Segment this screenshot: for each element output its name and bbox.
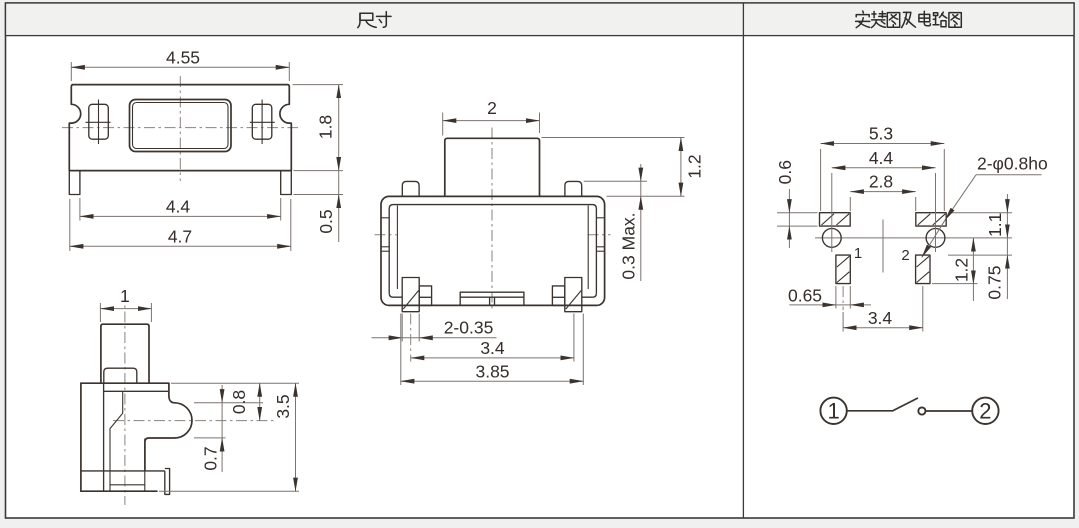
mount left pad hatch [822, 214, 835, 225]
mount vertical center tick [882, 220, 884, 273]
front view left terminal [402, 278, 419, 312]
top view left peg cross line [86, 121, 111, 123]
svg-text:1: 1 [854, 245, 862, 262]
dim 3.4 line [843, 327, 923, 329]
dim 0.3Max lower arrow tail [640, 196, 642, 281]
dim 0.6 lower arrow [788, 226, 790, 248]
dim 1.1 lower arrow [1006, 220, 1008, 238]
svg-text:4.55: 4.55 [166, 48, 200, 68]
dim 4.7 extension lines [69, 199, 71, 251]
mount left pad [820, 213, 851, 226]
dim 0.65 left segment [789, 304, 836, 306]
dim 2-0.35 left segment [372, 337, 403, 339]
dim 4.4 line [80, 215, 281, 217]
side view bump bottom extension line [194, 437, 226, 439]
dim 0.65 middle segment [836, 304, 850, 306]
front view right terminal hatch [566, 291, 581, 310]
dim 1.1 connector [1006, 213, 1008, 220]
front view right peg [565, 181, 582, 196]
mount right terminal hatch [917, 256, 930, 267]
svg-text:2: 2 [901, 247, 909, 264]
front view left wall ticks [381, 217, 389, 219]
dim 0.7 connector [221, 403, 223, 438]
dim 3.4 right extension [573, 314, 575, 362]
front view left terminal step [419, 286, 431, 306]
dim 3.4 extension lines [842, 312, 844, 332]
front view body outer [381, 196, 605, 305]
front view button [445, 138, 540, 196]
dim 0.6 connector [788, 213, 790, 226]
side view centerline horizontal [113, 420, 277, 422]
left terminal center dashed line [410, 314, 412, 362]
side view left column inner [103, 383, 105, 491]
column divider [742, 3, 744, 518]
glyph 装 [872, 13, 876, 15]
leader segment to pad [945, 175, 976, 221]
svg-text:2: 2 [979, 399, 991, 424]
side view interior right vertical [144, 438, 146, 491]
dim 0.3Max extension line [584, 180, 647, 182]
mount left terminal hatch [837, 256, 850, 267]
dim 2 extension lines [442, 113, 444, 136]
dim 5.3 line [821, 143, 945, 145]
dim 1.1 upper arrow [1006, 194, 1008, 213]
dim 1.2 tail [972, 284, 974, 301]
svg-text:1: 1 [120, 286, 130, 306]
svg-text:3.5: 3.5 [273, 394, 293, 418]
side view bottom edge [81, 490, 157, 492]
dim 0.3Max upper arrow [640, 164, 642, 181]
side view body top line [81, 382, 169, 384]
top view button outer [130, 100, 232, 152]
glyph 及 [903, 11, 910, 13]
svg-text:4.4: 4.4 [869, 148, 894, 168]
front view centerline vertical [491, 128, 493, 312]
dim 2.8 extension lines [849, 197, 851, 211]
mount right terminal rect [916, 255, 930, 284]
side view collar [104, 368, 137, 383]
svg-text:2-φ0.8ho: 2-φ0.8ho [977, 154, 1048, 174]
top view centerline vertical [179, 76, 181, 181]
svg-text:0.65: 0.65 [788, 286, 822, 306]
side view bump top extension line [194, 402, 263, 404]
dim 0.6 upper arrow [788, 189, 790, 213]
pad top right extension [950, 212, 1012, 214]
glyph 路 [934, 13, 938, 16]
leader segment to terminal [922, 220, 945, 257]
header text 安装图及电路图 (hand-drawn glyphs) [856, 11, 962, 28]
header band [6, 3, 1075, 36]
svg-text:0.75: 0.75 [985, 266, 1005, 300]
front view right wall ticks [596, 217, 604, 219]
dim 4.4 extension lines [831, 173, 833, 252]
mount left terminal rect [836, 255, 850, 284]
dim 4.55 extension lines [70, 62, 72, 81]
svg-text:1.2: 1.2 [952, 258, 972, 282]
dim 3.4 line [411, 357, 574, 359]
svg-text:1.2: 1.2 [685, 154, 705, 178]
side view left column outer [80, 383, 82, 491]
side view body top extension line [171, 382, 299, 384]
side view body second top line [104, 390, 168, 392]
svg-text:4.4: 4.4 [166, 197, 191, 217]
top view right foot [281, 171, 292, 195]
dim 1.2 line [680, 138, 682, 197]
glyph 图 [949, 13, 961, 28]
dim 2-0.35 right segment [419, 337, 496, 339]
front view bottom platform [460, 292, 524, 305]
svg-text:1: 1 [827, 399, 839, 424]
dim 2-0.35 middle segment [402, 337, 419, 339]
top view right peg [252, 104, 271, 139]
top view left peg centerline [98, 100, 100, 145]
side view bottom extension line [159, 490, 299, 492]
dim 3.85 line [401, 380, 584, 382]
dim 0.75 arrow [1006, 255, 1008, 299]
dim 1.8 line [338, 85, 340, 171]
front view centerline horizontal right wall [588, 234, 611, 236]
dim 0.5 line connector [338, 171, 340, 195]
front view left step mid line [419, 296, 431, 298]
leader underline [976, 174, 1042, 176]
terminal bottom right extension [932, 283, 978, 285]
svg-text:4.7: 4.7 [168, 227, 192, 247]
dim 0.5 extension line [294, 194, 344, 196]
svg-text:0.8: 0.8 [229, 390, 249, 414]
svg-text:0.5: 0.5 [316, 209, 336, 233]
front view inner wall right [587, 206, 589, 290]
side view interior contour [110, 391, 123, 491]
top view left peg [89, 104, 109, 139]
circuit wire left [847, 410, 893, 412]
side view centerline vertical [124, 291, 126, 505]
front view centerline horizontal left wall [375, 234, 397, 236]
side view right profile with bump [145, 383, 192, 471]
front view right terminal [565, 278, 582, 312]
front view left peg [402, 181, 419, 196]
side view interior bottom line [110, 484, 145, 486]
mount right hole circle [926, 229, 945, 248]
svg-text:0.7: 0.7 [201, 446, 221, 470]
front view mid rect bottom corner segments [389, 293, 402, 297]
front view platform mid line [460, 296, 524, 298]
circuit wire right [926, 410, 973, 412]
dim 2 line [443, 120, 540, 122]
glyph 安 [862, 11, 865, 13]
dim 0.3Max connector [640, 181, 642, 196]
front view right step mid line [552, 296, 564, 298]
front view right terminal step [552, 286, 564, 306]
dim 3.85 extension lines [400, 314, 402, 386]
svg-text:3.4: 3.4 [480, 338, 505, 358]
dim 3.5 line [295, 383, 297, 491]
svg-text:3.4: 3.4 [868, 308, 893, 328]
dim 1.2 extension lines [542, 137, 685, 139]
top view left foot [69, 171, 80, 195]
top view button inner [133, 103, 229, 149]
glyph 寸 [377, 15, 392, 17]
dim 0.5 arrow tail [338, 195, 340, 243]
top view right peg cross line [250, 121, 275, 123]
top view right peg centerline [261, 100, 263, 145]
svg-text:1.1: 1.1 [985, 213, 1005, 237]
svg-text:0.3 Max.: 0.3 Max. [619, 212, 639, 279]
glyph 尺 [360, 13, 373, 20]
dim 0.7 lower arrow tail [221, 438, 223, 472]
mount horizontal centerline [815, 237, 1012, 239]
circuit terminal circle 1 [820, 398, 846, 424]
circuit terminal circle 2 [972, 398, 998, 424]
svg-text:3.85: 3.85 [475, 361, 509, 381]
dim 0.8 line [259, 383, 261, 420]
top view centerline horizontal [62, 127, 298, 129]
svg-text:2: 2 [487, 98, 497, 118]
dim 1 line [100, 308, 151, 310]
dim 2-0.35 extension lines [401, 314, 403, 342]
dim 2.8 line [850, 191, 915, 193]
header text 尺寸 (hand-drawn glyphs) [358, 12, 391, 28]
glyph 图 [887, 13, 899, 28]
mount right pad [916, 213, 946, 226]
circuit contact circle [918, 407, 925, 414]
dim 4.4 extension lines [79, 198, 81, 221]
dim 1.2 line [972, 238, 974, 284]
dim 0.6 extension lines [777, 212, 818, 214]
mount right pad hatch [918, 214, 931, 225]
front view platform inner verticals [489, 297, 491, 305]
glyph 电 [919, 14, 930, 21]
dim 5.3 extension lines [820, 149, 822, 211]
front view inner wall left [396, 206, 398, 290]
side view stem [101, 324, 149, 383]
left terminal dashed centerline [842, 286, 844, 310]
svg-text:5.3: 5.3 [869, 124, 893, 144]
dim 1 extension lines [99, 303, 101, 322]
mount left hole circle [822, 229, 841, 248]
dim 4.55 line [71, 66, 289, 68]
circuit switch lever [893, 398, 918, 411]
side view foot [165, 469, 170, 495]
side view bottom shelf line [81, 470, 165, 472]
dim 1.8 extension lines [293, 84, 344, 86]
dim 0.7 upper arrow [221, 385, 223, 403]
front view body middle [389, 205, 596, 294]
svg-text:0.6: 0.6 [775, 160, 795, 184]
terminal top right extension [948, 254, 1012, 256]
front view left terminal hatch [403, 291, 418, 310]
top view body outline [69, 85, 291, 171]
svg-text:2.8: 2.8 [869, 172, 893, 192]
dim 0.65 right segment [850, 304, 871, 306]
dim 0.65 extension lines [835, 286, 837, 309]
dim 4.4 line [832, 167, 936, 169]
svg-text:1.8: 1.8 [315, 115, 335, 139]
svg-text:2-0.35: 2-0.35 [444, 317, 494, 337]
dim 4.7 line [70, 245, 291, 247]
